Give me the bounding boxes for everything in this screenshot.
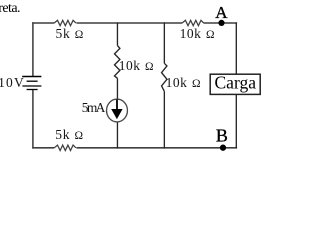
svg-text:B: B <box>216 126 228 146</box>
svg-text:A: A <box>215 3 228 22</box>
svg-text:10V: 10V <box>0 75 25 90</box>
svg-text:10kΩ: 10kΩ <box>180 26 215 41</box>
svg-text:5kΩ: 5kΩ <box>55 127 84 142</box>
svg-text:reta.: reta. <box>0 1 20 16</box>
svg-text:10kΩ: 10kΩ <box>119 58 154 73</box>
svg-text:5kΩ: 5kΩ <box>56 26 85 41</box>
svg-text:10kΩ: 10kΩ <box>166 75 201 90</box>
svg-text:5mA: 5mA <box>82 100 106 115</box>
svg-text:Carga: Carga <box>215 73 257 93</box>
